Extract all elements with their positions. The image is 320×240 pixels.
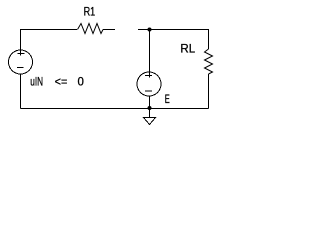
svg-text:uIN: uIN <box>30 76 43 88</box>
svg-text:E: E <box>165 94 170 106</box>
svg-text:0: 0 <box>78 76 84 88</box>
svg-text:R1: R1 <box>84 6 96 18</box>
svg-text:<=: <= <box>55 76 68 88</box>
svg-text:RL: RL <box>180 43 195 55</box>
